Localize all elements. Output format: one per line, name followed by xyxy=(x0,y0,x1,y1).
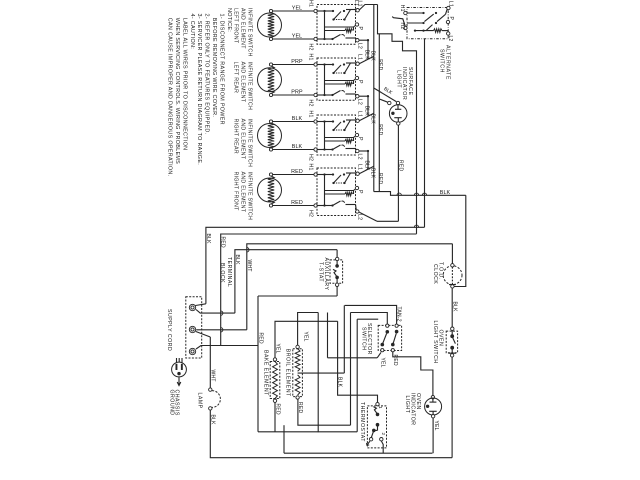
bus WHT to clock xyxy=(247,244,453,330)
svg-text:LAMP: LAMP xyxy=(196,393,202,409)
svg-text:LIGHT: LIGHT xyxy=(404,396,410,414)
wire selector to oven indicator light xyxy=(393,352,433,396)
wire H2 BLK xyxy=(273,149,314,151)
terminal L2 unit 2 xyxy=(356,95,359,98)
crossing hops on supply buses xyxy=(247,247,249,251)
svg-text:L1: L1 xyxy=(357,54,363,60)
wire to selector top-left xyxy=(357,318,378,320)
svg-text:SWITCH: SWITCH xyxy=(360,327,366,350)
infinite switch box left rear xyxy=(317,58,356,100)
svg-text:INFINITE SWITCH: INFINITE SWITCH xyxy=(246,172,252,221)
surface element right front (RED) xyxy=(258,178,282,202)
svg-text:BEFORE REMOVING WIRE COVER.: BEFORE REMOVING WIRE COVER. xyxy=(211,18,217,117)
svg-text:BLK: BLK xyxy=(337,377,343,388)
terminal P unit 1 xyxy=(355,23,358,26)
wire RED left edge of oven circuit xyxy=(257,296,259,432)
switch contacts unit 2 xyxy=(317,64,333,66)
switch contacts unit 1 xyxy=(317,10,333,12)
bake element feed wire xyxy=(275,321,338,359)
wire RED bottom run xyxy=(258,431,357,433)
selector switch box xyxy=(378,325,401,350)
svg-text:BLK: BLK xyxy=(440,190,451,196)
svg-text:H1: H1 xyxy=(308,164,314,171)
svg-text:P: P xyxy=(357,190,363,194)
svg-text:AND ELEMENT: AND ELEMENT xyxy=(239,119,245,160)
svg-text:TAN-2: TAN-2 xyxy=(396,307,402,322)
svg-text:L2: L2 xyxy=(356,99,362,105)
broil element xyxy=(296,345,299,348)
terminal P unit 2 xyxy=(355,76,358,79)
vertical wire d xyxy=(317,313,319,433)
svg-text:H1: H1 xyxy=(399,5,405,12)
alternate switch resistor xyxy=(434,29,443,33)
svg-text:SUPPLY CORD: SUPPLY CORD xyxy=(166,309,172,351)
wire hop marks xyxy=(397,193,401,195)
surface element right rear (BLK) xyxy=(258,124,282,148)
wire H1 YEL xyxy=(273,10,314,12)
svg-text:1: 1 xyxy=(378,406,383,409)
svg-text:2- REFER ONLY TO FEATURES EQUI: 2- REFER ONLY TO FEATURES EQUIPPED. xyxy=(204,14,210,135)
surface indicator light xyxy=(396,101,399,104)
wire YEL from oven indicator light xyxy=(432,418,434,453)
thermostat bottom wire to indicator line xyxy=(381,441,383,453)
terminal L1 unit 2 xyxy=(356,62,359,65)
wire terminal2 to WHT bus xyxy=(196,329,247,331)
pilot resistor unit 4 xyxy=(325,190,354,192)
terminal L2 unit 4 xyxy=(356,210,359,213)
lower contact unit 4 xyxy=(317,205,333,207)
wire H2 PRP xyxy=(273,94,314,96)
lower contact unit 3 xyxy=(317,149,333,151)
svg-text:T-STAT: T-STAT xyxy=(317,262,323,282)
alternate switch contacts xyxy=(407,12,424,14)
svg-text:P: P xyxy=(448,17,454,21)
svg-text:BLK: BLK xyxy=(451,302,457,313)
wire stub at alternate switch H2 xyxy=(392,17,405,27)
svg-text:BLK: BLK xyxy=(234,255,240,266)
svg-text:BLK: BLK xyxy=(209,415,215,426)
alternate switch terminal L2 xyxy=(447,32,450,35)
bake element xyxy=(273,358,276,361)
broil element bottom wire xyxy=(298,399,351,425)
svg-text:YEL: YEL xyxy=(292,34,303,40)
svg-text:P: P xyxy=(357,27,363,31)
svg-text:LIGHT: LIGHT xyxy=(396,70,402,88)
wire terminal1 to BLK bus 2 xyxy=(196,310,235,314)
wire to L2 unit4 xyxy=(377,220,398,222)
vertical wire from alternate switch L2 to BLK bus xyxy=(424,39,426,228)
svg-text:YEL: YEL xyxy=(433,421,439,431)
lower contact unit 2 xyxy=(317,94,333,96)
svg-text:H1: H1 xyxy=(308,111,314,118)
svg-text:WHT: WHT xyxy=(209,370,215,382)
wire to selector top-right xyxy=(351,313,388,325)
wire H2 RED xyxy=(273,205,314,207)
svg-text:THERMOSTAT: THERMOSTAT xyxy=(359,402,365,442)
svg-text:AND ELEMENT: AND ELEMENT xyxy=(239,8,245,49)
terminal P unit 3 xyxy=(355,133,358,136)
svg-text:RED: RED xyxy=(291,169,303,175)
terminal L1 unit 1 xyxy=(356,9,359,12)
wires to surface indicator light (BLK diagonals) xyxy=(374,88,397,102)
wire i to thermostat 3 xyxy=(356,319,358,432)
svg-text:L1: L1 xyxy=(357,164,363,170)
svg-text:INFINITE SWITCH: INFINITE SWITCH xyxy=(246,119,252,168)
oven light switch contacts xyxy=(451,327,454,330)
svg-text:LEFT FRONT: LEFT FRONT xyxy=(232,8,238,44)
wire h to thermostat 2 xyxy=(350,313,352,426)
svg-text:H2: H2 xyxy=(308,44,314,51)
svg-text:LEFT REAR: LEFT REAR xyxy=(232,62,238,94)
svg-text:BLK: BLK xyxy=(364,50,370,61)
bus BLK from terminal block (top) xyxy=(206,227,425,303)
wire L2 unit1 to L1 unit2 (BLK) xyxy=(359,39,368,41)
alternate switch terminal P xyxy=(446,20,449,23)
svg-text:L2: L2 xyxy=(356,154,362,160)
svg-text:2: 2 xyxy=(381,433,386,436)
svg-text:LABEL ALL WIRES PRIOR TO DISCO: LABEL ALL WIRES PRIOR TO DISCONNECTION xyxy=(181,18,187,151)
chassis ground symbol xyxy=(178,377,180,384)
wire terminal1 to BLK bus xyxy=(196,304,206,306)
svg-text:LIGHT SWITCH: LIGHT SWITCH xyxy=(432,321,438,364)
broil element feed wire xyxy=(298,313,319,346)
switch contacts unit 3 xyxy=(317,121,333,123)
wire BLK clock to oven light switch xyxy=(451,288,453,327)
svg-text:L2: L2 xyxy=(447,36,453,42)
svg-text:H2: H2 xyxy=(308,154,314,161)
wire L1 unit1 riser xyxy=(359,5,377,11)
wire terminal2 to lamp xyxy=(196,332,211,338)
surface element left rear (PRP) xyxy=(258,68,282,92)
svg-text:BLK: BLK xyxy=(292,116,303,122)
svg-text:P: P xyxy=(357,137,363,141)
terminal L1 unit 3 xyxy=(356,119,359,122)
broil element center tap wire xyxy=(298,372,345,374)
svg-text:L1: L1 xyxy=(357,111,363,117)
lamp xyxy=(209,388,212,391)
svg-text:3- SERVICER PLEASE RETURN DIAG: 3- SERVICER PLEASE RETURN DIAGRAM TO RAN… xyxy=(196,14,202,166)
wire terminal3 to RED oven feed xyxy=(196,346,258,350)
wire auxiliary t-stat bottom xyxy=(336,287,338,297)
svg-text:WHT: WHT xyxy=(246,260,252,272)
supply cord plug xyxy=(172,362,187,377)
wire lower left junctions xyxy=(283,425,285,453)
svg-text:YEL: YEL xyxy=(292,6,303,12)
wire TAN to selector xyxy=(345,305,397,324)
surface element left front (YEL) xyxy=(258,13,282,37)
infinite switch box right rear xyxy=(317,115,356,155)
wire RED top to auxiliary t-stat xyxy=(258,295,337,297)
svg-text:L1: L1 xyxy=(448,1,454,7)
terminal block terminal 3 xyxy=(189,348,195,354)
svg-text:YEL: YEL xyxy=(380,358,386,368)
svg-text:BLK: BLK xyxy=(370,168,376,179)
svg-text:BLK: BLK xyxy=(364,161,370,172)
infinite switch box right front xyxy=(317,168,356,216)
svg-text:GROUND: GROUND xyxy=(168,390,174,416)
chain B vertical (BLK) xyxy=(373,5,375,192)
svg-text:CAN CAUSE IMPROPER AND DANGERO: CAN CAUSE IMPROPER AND DANGEROUS OPERATI… xyxy=(167,18,173,177)
wire BLK selector to thermostat xyxy=(338,321,378,402)
svg-text:4- CAUTION:: 4- CAUTION: xyxy=(189,14,195,50)
svg-text:INFINITE SWITCH: INFINITE SWITCH xyxy=(246,8,252,57)
svg-text:CLOCK: CLOCK xyxy=(432,264,438,284)
svg-text:RED: RED xyxy=(257,333,263,344)
svg-text:P: P xyxy=(357,80,363,84)
svg-text:PRP: PRP xyxy=(291,90,303,96)
svg-text:BLK: BLK xyxy=(370,114,376,125)
svg-text:RED: RED xyxy=(291,200,303,206)
svg-text:RED: RED xyxy=(397,160,403,171)
wire bottom to oven indicator light xyxy=(284,452,432,454)
pilot resistor unit 3 xyxy=(325,137,354,139)
terminal P unit 4 xyxy=(355,186,358,189)
alternate switch terminal H2 xyxy=(404,26,407,29)
svg-text:YEL: YEL xyxy=(302,332,308,342)
wire L2 unit2 to L1 unit3 (BLK) xyxy=(359,95,368,97)
infinite switch box left front xyxy=(317,5,356,45)
pilot resistor unit 1 xyxy=(325,26,354,28)
oven light switch box xyxy=(446,331,457,353)
svg-text:L1: L1 xyxy=(353,0,359,6)
svg-text:L2: L2 xyxy=(356,43,362,49)
wire BLK from lamp xyxy=(210,410,452,458)
svg-text:AND ELEMENT: AND ELEMENT xyxy=(239,172,245,213)
terminal block terminal 1 xyxy=(189,304,195,310)
svg-text:L2: L2 xyxy=(356,214,362,220)
svg-text:RIGHT FRONT: RIGHT FRONT xyxy=(232,172,238,212)
bake element bottom wire xyxy=(274,402,276,431)
T.O.D. clock xyxy=(443,266,462,285)
svg-text:BROIL ELEMENT: BROIL ELEMENT xyxy=(284,349,290,397)
svg-text:RIGHT REAR: RIGHT REAR xyxy=(232,119,238,154)
staircase wire from L1 bus to right vertical xyxy=(378,5,417,234)
svg-text:WHEN SERVICING CONTROLS. WIRIN: WHEN SERVICING CONTROLS. WIRING PROBLEMS xyxy=(174,18,180,164)
svg-text:RED: RED xyxy=(220,237,226,248)
wire to auxiliary t-stat top xyxy=(336,250,338,258)
switch contacts unit 4 xyxy=(317,174,333,176)
wire BLK vertical right side xyxy=(454,195,466,286)
wire H1 RED xyxy=(273,174,314,176)
wire H1 BLK xyxy=(273,121,314,123)
wire from oven light switch down xyxy=(451,357,453,458)
wire H2 YEL xyxy=(273,38,314,40)
thermostat contacts xyxy=(376,402,379,405)
bus BLK to auxiliary t-stat xyxy=(235,250,337,313)
svg-text:H2: H2 xyxy=(308,100,314,107)
wire WHT to clock xyxy=(451,244,453,264)
oven indicator light xyxy=(431,396,434,399)
svg-text:BAKE ELEMENT: BAKE ELEMENT xyxy=(262,350,268,396)
lower contact unit 1 xyxy=(317,38,333,40)
svg-text:H2: H2 xyxy=(308,210,314,217)
supply cord wires to plug xyxy=(176,358,178,363)
svg-text:TERMINAL: TERMINAL xyxy=(226,257,232,287)
wire g to broil center tap xyxy=(343,305,345,373)
alternate switch terminal L1 xyxy=(447,6,450,9)
svg-text:YEL: YEL xyxy=(274,344,280,354)
svg-text:1- DISCONNECT RANGE FROM POWER: 1- DISCONNECT RANGE FROM POWER xyxy=(218,14,224,125)
svg-text:SWITCH: SWITCH xyxy=(438,49,444,73)
alternate switch box xyxy=(407,8,448,39)
svg-text:H1: H1 xyxy=(308,0,314,7)
wire BLK horizontal to T.O.D. clock xyxy=(374,192,466,196)
svg-text:INFINITE SWITCH: INFINITE SWITCH xyxy=(246,62,252,111)
svg-text:BLK: BLK xyxy=(364,106,370,117)
chain C vertical (RED) xyxy=(378,34,380,192)
svg-text:BLK: BLK xyxy=(205,234,211,245)
auxiliary t-stat xyxy=(330,260,343,283)
svg-text:PRP: PRP xyxy=(291,59,303,65)
thermostat box xyxy=(367,406,386,448)
pilot resistor unit 2 xyxy=(325,80,354,82)
wire selector bottom-left run xyxy=(328,357,378,359)
wire RED from surface light down xyxy=(397,126,399,222)
svg-text:BLK: BLK xyxy=(370,51,376,62)
svg-text:H1: H1 xyxy=(308,54,314,61)
wire L2 unit3 to L1 unit4 (BLK) xyxy=(359,150,368,152)
svg-text:BLK: BLK xyxy=(292,144,303,150)
terminal L2 unit 3 xyxy=(356,149,359,152)
terminal L2 unit 1 xyxy=(356,39,359,42)
wire WHT to lamp xyxy=(209,337,211,388)
vertical wire e xyxy=(327,313,329,358)
terminal block terminal 2 xyxy=(189,326,195,332)
wire H1 PRP xyxy=(273,64,314,66)
selector switch terminals xyxy=(386,324,389,327)
svg-text:AND ELEMENT: AND ELEMENT xyxy=(239,62,245,103)
terminal L1 unit 4 xyxy=(356,172,359,175)
terminal block box xyxy=(186,297,202,358)
svg-text:NOTICE:: NOTICE: xyxy=(226,8,232,32)
alternate switch terminal H1 xyxy=(404,11,407,14)
bus RED from terminal block xyxy=(221,234,417,346)
thermostat exit arrow xyxy=(367,441,370,445)
svg-text:BLOCK: BLOCK xyxy=(219,263,225,283)
